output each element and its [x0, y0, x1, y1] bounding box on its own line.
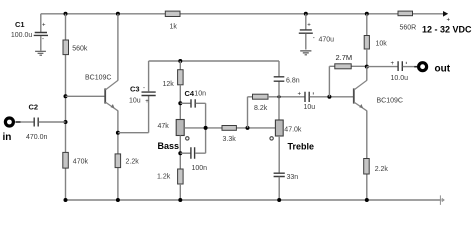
- resistor 2.2k (Q2 emitter): [364, 159, 389, 175]
- node bass wiper: [204, 126, 208, 130]
- capacitor 470u: [299, 14, 334, 50]
- svg-text:C3: C3: [130, 85, 140, 94]
- svg-text:BC109C: BC109C: [377, 97, 403, 104]
- svg-text:2.2k: 2.2k: [126, 158, 140, 165]
- node input: [64, 120, 68, 124]
- svg-text:+: +: [145, 99, 149, 105]
- capacitor 100n: [180, 128, 207, 172]
- capacitor 10.0u output: [367, 61, 415, 82]
- capacitor C4 10n: [180, 89, 206, 128]
- svg-text:+: +: [298, 91, 302, 97]
- resistor 470k: [63, 152, 89, 168]
- svg-text:2.7M: 2.7M: [336, 53, 353, 62]
- node top rail at Q1 collector: [116, 12, 120, 16]
- node Q2 collector: [365, 65, 369, 69]
- input jack: [3, 118, 21, 143]
- ground under C1: [35, 51, 46, 55]
- svg-text:10n: 10n: [194, 90, 206, 97]
- node treble wiper: [246, 126, 250, 130]
- node 12k top: [178, 59, 182, 63]
- svg-text:47.0k: 47.0k: [284, 127, 302, 134]
- svg-text:C1: C1: [15, 20, 25, 29]
- wire 1.2k to ground rail: [179, 184, 181, 200]
- svg-text:out: out: [435, 63, 451, 74]
- node top rail at 470u: [304, 12, 308, 16]
- wire Q2 emitter vertical: [366, 111, 368, 201]
- node bottom rail 1.2k: [178, 198, 182, 202]
- ground rail arrow: [440, 195, 444, 205]
- svg-text:470k: 470k: [73, 159, 89, 166]
- svg-text:8.2k: 8.2k: [254, 105, 268, 112]
- wire 6.8n branch vertical: [278, 61, 280, 120]
- resistor 2.2k (Q1 emitter): [115, 154, 139, 168]
- node bottom rail Q2 emitter: [365, 198, 369, 202]
- wire tone-stack input top run: [149, 60, 279, 62]
- potentiometer Treble 47.0k: [270, 120, 314, 152]
- svg-text:10k: 10k: [376, 40, 388, 47]
- wire 33n to ground rail: [278, 177, 280, 200]
- svg-text:12 - 32 VDC: 12 - 32 VDC: [422, 25, 472, 35]
- node C4 branch: [178, 101, 182, 105]
- wire 2.7M feedback loop: [329, 66, 366, 97]
- svg-text:Treble: Treble: [288, 142, 315, 152]
- resistor 10k: [364, 14, 387, 67]
- wire 12k to C4 node to pot top: [179, 85, 181, 120]
- node cross 6.8n / 8.2k row: [277, 95, 280, 98]
- wire 8.2k branch: [248, 97, 253, 128]
- node 100n branch: [178, 151, 182, 155]
- wire Q1 emitter vertical: [117, 111, 119, 201]
- transistor Q2 BC109C: [354, 67, 403, 111]
- wire 12k top lead: [179, 61, 181, 70]
- node bottom rail 33n: [277, 198, 281, 202]
- svg-text:in: in: [3, 132, 12, 143]
- resistor 560k: [63, 40, 88, 55]
- svg-text:-: -: [42, 37, 44, 43]
- svg-text:+: +: [307, 23, 311, 29]
- resistor 3.3k: [222, 126, 236, 143]
- capacitor C3 10u: [129, 61, 156, 133]
- capacitor 6.8n: [274, 77, 300, 85]
- wire treble pot bottom: [278, 136, 280, 173]
- svg-text:Bass: Bass: [158, 141, 180, 151]
- wire top supply rail: [41, 13, 443, 15]
- capacitor C1 100.0u: [11, 14, 48, 51]
- resistor 2.7M: [335, 53, 352, 69]
- svg-text:3.3k: 3.3k: [223, 136, 237, 143]
- supply arrow + terminal: [443, 11, 451, 24]
- svg-text:2.2k: 2.2k: [375, 166, 389, 173]
- wire emitter to C3: [118, 132, 149, 134]
- svg-text:12k: 12k: [163, 81, 175, 88]
- node Q1 emitter / C3: [116, 131, 120, 135]
- svg-text:100n: 100n: [192, 165, 208, 172]
- node bottom rail 470k: [64, 198, 68, 202]
- svg-text:-: -: [313, 36, 315, 42]
- svg-text:470u: 470u: [319, 37, 335, 44]
- node bottom rail Q1 emitter: [116, 198, 120, 202]
- wire bass wiper row: [184, 127, 275, 129]
- wire bass pot bottom: [179, 136, 181, 170]
- wire 8.2k to 10u: [268, 96, 305, 98]
- resistor 12k: [163, 70, 184, 88]
- svg-text:10u: 10u: [304, 104, 316, 111]
- svg-text:1.2k: 1.2k: [157, 173, 171, 180]
- svg-text:47k: 47k: [158, 123, 170, 130]
- svg-text:-: -: [143, 86, 145, 92]
- node Q2 base: [327, 95, 331, 99]
- svg-text:33n: 33n: [287, 174, 299, 181]
- transistor Q1 BC109C: [85, 14, 118, 111]
- svg-text:560R: 560R: [400, 25, 417, 32]
- potentiometer Bass 47k: [158, 120, 190, 152]
- node base bias: [64, 94, 68, 98]
- svg-text:+: +: [447, 18, 451, 24]
- capacitor C2 470.0n: [21, 103, 66, 141]
- node top rail at 560k: [64, 12, 68, 16]
- resistor 1.2k: [157, 169, 183, 184]
- resistor R 1k (series in rail): [165, 11, 180, 30]
- svg-text:470.0n: 470.0n: [26, 134, 48, 141]
- svg-text:+: +: [42, 23, 46, 29]
- ground under 470u: [300, 51, 311, 55]
- svg-text:100.0u: 100.0u: [11, 32, 33, 39]
- node top rail at 10k: [365, 12, 369, 16]
- capacitor 33n: [274, 173, 299, 181]
- svg-text:560k: 560k: [72, 46, 88, 53]
- resistor 8.2k: [253, 94, 269, 112]
- svg-text:BC109C: BC109C: [85, 75, 111, 82]
- wire bottom ground rail: [66, 199, 441, 201]
- svg-text:10.0u: 10.0u: [391, 75, 409, 82]
- svg-text:+: +: [391, 61, 395, 67]
- capacitor 10u coupling: [298, 91, 354, 111]
- resistor R 560R (series in rail): [398, 11, 416, 31]
- wire Q1 base: [66, 95, 105, 97]
- output jack: [414, 63, 451, 75]
- svg-text:1k: 1k: [170, 24, 178, 31]
- svg-text:10u: 10u: [129, 98, 141, 105]
- svg-text:C2: C2: [29, 103, 39, 112]
- svg-text:6.8n: 6.8n: [286, 78, 300, 85]
- wire left bias vertical: [65, 14, 67, 200]
